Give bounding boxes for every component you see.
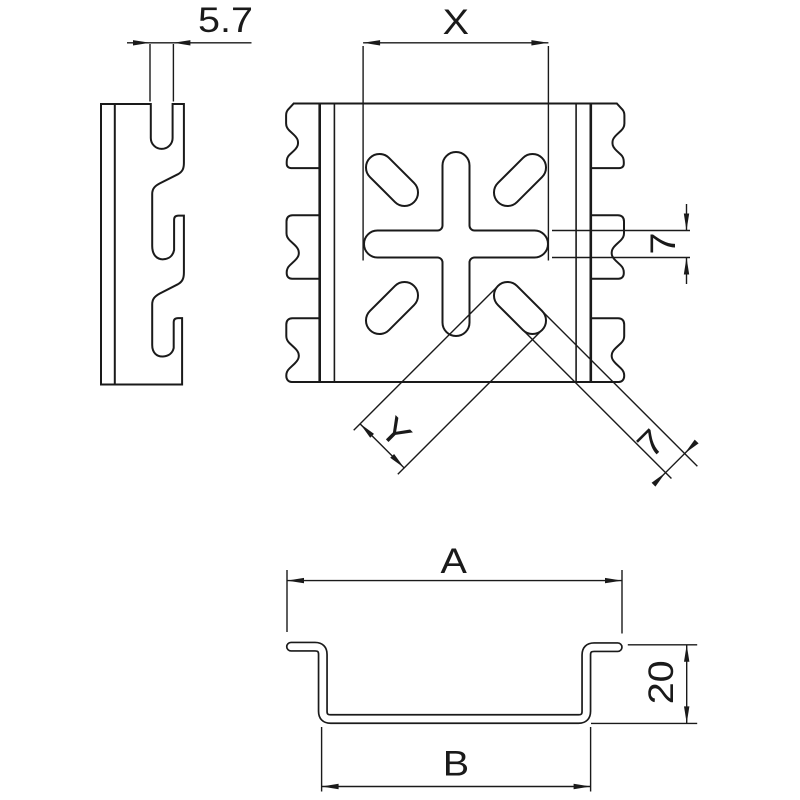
svg-text:B: B [443, 745, 469, 784]
svg-text:X: X [443, 3, 469, 42]
svg-text:5.7: 5.7 [198, 1, 253, 40]
svg-text:7: 7 [644, 233, 683, 255]
svg-text:A: A [441, 542, 468, 581]
svg-text:20: 20 [642, 660, 681, 704]
